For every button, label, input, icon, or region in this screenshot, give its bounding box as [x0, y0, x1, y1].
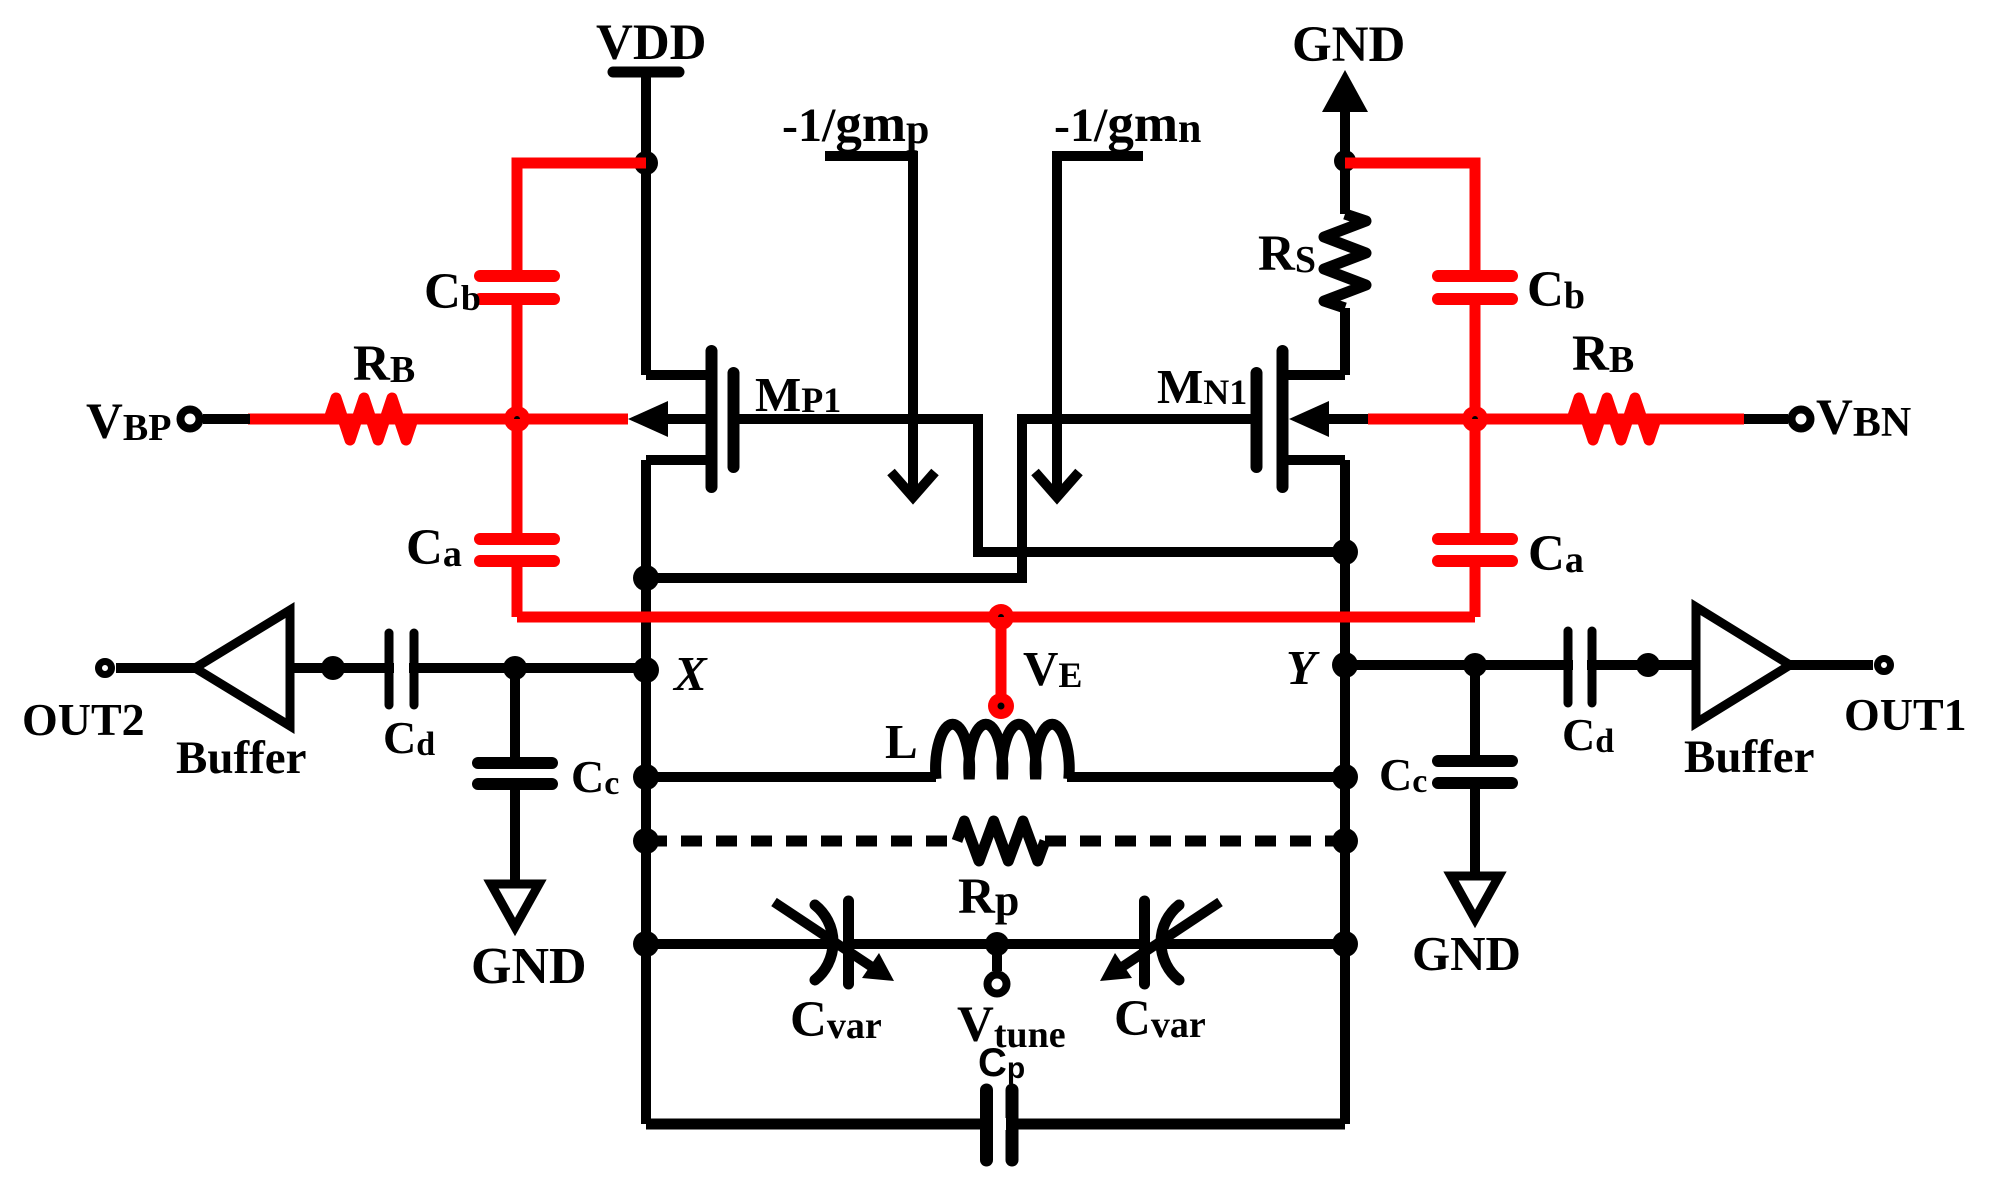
svg-text:L: L: [885, 714, 918, 769]
svg-text:VE: VE: [1023, 641, 1082, 696]
svg-text:Vtune: Vtune: [957, 997, 1066, 1056]
svg-text:GND: GND: [1292, 17, 1405, 73]
svg-text:GND: GND: [471, 938, 587, 995]
transistor MP1: [646, 351, 734, 487]
inductor L: [936, 724, 1070, 779]
node junction dot varactor left: [633, 931, 659, 957]
resistor RB (left): [329, 398, 413, 440]
body lead with arrow: [665, 414, 706, 424]
svg-text:X: X: [672, 646, 708, 701]
wire Cc to GND (right): [1470, 789, 1480, 876]
svg-text:Rp: Rp: [958, 869, 1019, 925]
svg-text:Cc: Cc: [571, 751, 619, 802]
terminal OUT2: [99, 662, 112, 675]
wire Ca down to red bottom rail (left): [512, 567, 523, 617]
node X horizontal rail: [116, 663, 646, 673]
node GND/red junction dot: [1334, 150, 1356, 172]
capacitor Cc (right): [1438, 761, 1512, 783]
-1/gmp impedance arrow: [825, 156, 935, 497]
node junction dot Rp right: [1332, 828, 1358, 854]
drain lead: [646, 455, 711, 465]
node junction MP1 drain / cross wire: [633, 565, 659, 591]
svg-text:Buffer: Buffer: [1684, 731, 1815, 783]
resistor RS: [1324, 214, 1366, 308]
transistor MN1: [1257, 351, 1369, 487]
svg-text:Cb: Cb: [424, 264, 481, 320]
capacitor Cc (left): [478, 763, 552, 784]
node Y junction dot: [1332, 652, 1358, 678]
svg-text:Buffer: Buffer: [176, 732, 307, 784]
MP1 body arrowhead: [628, 401, 668, 437]
node Y horizontal rail: [1345, 660, 1873, 670]
node junction dot VE: [988, 604, 1014, 630]
node VE terminal dot: [988, 693, 1014, 719]
wire Cc branch stem (left): [510, 668, 520, 757]
node junction dot varactor right: [1332, 931, 1358, 957]
ground GND (left) open triangle: [491, 884, 539, 927]
svg-text:Cb: Cb: [1527, 262, 1585, 318]
terminal VBN: [1744, 414, 1788, 424]
wire bottom rail: [646, 1119, 1345, 1130]
svg-text:Ca: Ca: [1528, 526, 1584, 582]
resistor Rp: [957, 821, 1045, 861]
resistor RB (right): [1572, 398, 1656, 440]
svg-text:-1/gmn: -1/gmn: [1054, 95, 1201, 153]
wire Cc to GND (left): [510, 790, 520, 884]
channel bar: [706, 351, 718, 487]
buffer amplifier (right, pointing right): [1696, 607, 1790, 723]
svg-text:OUT1: OUT1: [1844, 689, 1967, 740]
wire inductor rail: [646, 772, 1345, 782]
svg-text:Cvar: Cvar: [1114, 991, 1206, 1047]
node junction dot Rp left: [633, 828, 659, 854]
svg-text:MN1: MN1: [1157, 359, 1247, 414]
gate bar: [1251, 373, 1263, 467]
varactor Cvar (right): [1122, 901, 1220, 984]
drain lead: [1283, 455, 1345, 465]
Cvar right arrowhead: [1100, 953, 1132, 981]
wire body node to Ca (left): [512, 419, 523, 533]
wire right main vertical (MN1 drain to bottom rail): [1340, 460, 1350, 1124]
node junction dot Vtune: [985, 932, 1009, 956]
svg-text:GND: GND: [1412, 926, 1521, 981]
terminal Vtune: [992, 944, 1002, 971]
node junction dot red (right body): [1462, 406, 1488, 432]
svg-text:OUT2: OUT2: [22, 694, 145, 745]
wire Cb to body node (right): [1470, 305, 1481, 419]
wire Cc branch stem (right): [1470, 665, 1480, 755]
svg-text:Cvar: Cvar: [790, 992, 882, 1048]
ground GND (top right) arrow symbol: [1322, 70, 1368, 163]
capacitor Cp: [987, 1090, 1013, 1160]
svg-text:Y: Y: [1286, 640, 1320, 695]
svg-text:RS: RS: [1258, 226, 1316, 282]
wire red top rail right (GND dot to Cb): [1345, 163, 1475, 270]
terminal VBP: [203, 414, 250, 424]
-1/gmn impedance arrow: [1035, 156, 1143, 497]
node junction dot Cc branch (right): [1463, 653, 1487, 677]
wire Ca down to red bottom rail (right): [1470, 567, 1481, 617]
capacitor Cd (left): [389, 633, 414, 705]
node junction dot Cd/buffer (right): [1636, 653, 1660, 677]
node junction MN1 drain / cross wire: [1332, 539, 1358, 565]
wire red top rail left (VDD dot to Cb): [517, 163, 646, 270]
white gap of Cd left: [394, 663, 409, 674]
node junction dot red (left body): [504, 406, 530, 432]
svg-text:Cc: Cc: [1379, 749, 1427, 800]
wire red bottom rail (VE rail): [517, 612, 1475, 623]
node junction dot L left: [633, 764, 659, 790]
node VDD/red junction dot: [634, 151, 658, 175]
node junction dot L right: [1332, 764, 1358, 790]
capacitor Cb (left): [480, 276, 554, 299]
wire left main vertical (MP1 drain to bottom rail): [641, 460, 651, 1124]
svg-text:VDD: VDD: [596, 15, 707, 71]
svg-text:VBN: VBN: [1816, 390, 1911, 446]
wire Cb to body node (left): [512, 305, 523, 419]
svg-text:RB: RB: [353, 336, 415, 392]
wire body rail right (MN1 to VBN): [1368, 414, 1744, 425]
svg-text:VBP: VBP: [86, 394, 171, 450]
buffer amplifier (left, pointing left): [195, 610, 290, 726]
wire MN1 gate cross-coupling to node X: [646, 419, 1251, 578]
wire MP1 gate cross-coupling to node Y: [739, 419, 1345, 552]
white gap of Cp: [993, 1118, 1006, 1130]
svg-text:Ca: Ca: [406, 520, 462, 576]
svg-text:-1/gmp: -1/gmp: [782, 95, 929, 153]
source lead: [1283, 370, 1345, 380]
wire body rail left (VBP to MP1): [248, 414, 628, 425]
white gap of Cd right: [1573, 660, 1587, 671]
Cvar left arrowhead: [862, 953, 894, 981]
varactor Cvar (left): [774, 901, 872, 984]
capacitor Ca (left): [480, 539, 554, 561]
node junction dot Cc branch (left): [503, 656, 527, 680]
wire VDD stem down to MP1 source: [641, 77, 651, 375]
wire varactor rail: [646, 939, 1345, 949]
node X junction dot: [633, 657, 659, 683]
capacitor Ca (right): [1438, 539, 1512, 561]
source lead: [646, 370, 711, 380]
channel bar: [1277, 351, 1289, 487]
wire VE stub: [996, 617, 1007, 695]
wire RS to MN1 source: [1340, 308, 1350, 375]
gate bar: [728, 373, 740, 467]
body lead with arrow: [1326, 414, 1368, 424]
svg-text:Cd: Cd: [1562, 709, 1614, 760]
node junction dot buffer/Cd: [321, 656, 345, 680]
wire dashed Rp rail: [646, 836, 957, 847]
wire body node to Ca (right): [1470, 419, 1481, 533]
svg-text:MP1: MP1: [755, 367, 841, 422]
ground GND (right) open triangle: [1451, 876, 1499, 919]
wire GND dot down to RS: [1340, 163, 1350, 214]
capacitor Cb (right): [1438, 276, 1512, 299]
terminal OUT1: [1878, 659, 1891, 672]
MN1 body arrowhead: [1289, 401, 1329, 437]
capacitor Cd (right): [1568, 631, 1592, 703]
svg-text:RB: RB: [1572, 326, 1634, 382]
VDD supply symbol: [613, 67, 679, 78]
svg-text:Cd: Cd: [383, 712, 435, 763]
